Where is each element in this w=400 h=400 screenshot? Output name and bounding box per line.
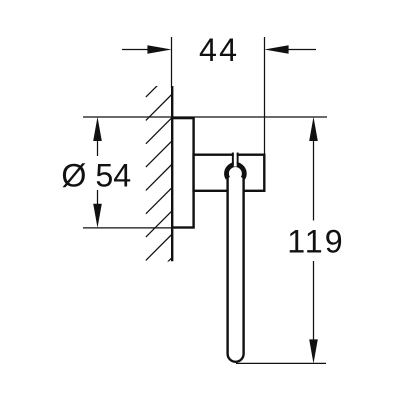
ring top cap (thick annular sector) [224,162,247,179]
bottom extension line of dim 119 [236,362,326,364]
dim 119: down arrow [309,339,318,363]
left extension line of dim 44 [171,37,173,88]
top extension line (shared by dim Ø54 and dim 119) [83,116,327,118]
pivot pin left line [232,153,234,165]
pivot pin slot (white gap) [234,152,237,166]
bottom extension line of dim Ø54 [83,227,172,229]
holder arm [194,155,265,191]
ring (side view, capsule) [228,163,244,362]
wall hatching [146,71,172,284]
dim 119: lower stem [313,261,315,341]
dim 44: left arrow [147,45,171,54]
wall line [171,86,173,261]
dim Ø54: down arrow [93,204,102,228]
dim 44: right arrow [264,45,288,54]
svg-text:119: 119 [287,223,345,259]
dim 119: up arrow [309,117,318,141]
dim 44: left tail line [122,49,150,51]
svg-text:44: 44 [199,32,239,68]
dim 44: right tail line [286,49,316,51]
svg-text:Ø 54: Ø 54 [61,157,131,193]
wall plate (escutcheon, side view) [172,118,193,227]
dim Ø54: up arrow [93,117,102,141]
right extension line of dim 44 [264,37,266,154]
pivot pin right line [237,153,239,165]
dim Ø54: lower stem [97,190,99,206]
dim Ø54: upper stem [97,139,99,156]
dim 119: upper stem [313,139,315,221]
